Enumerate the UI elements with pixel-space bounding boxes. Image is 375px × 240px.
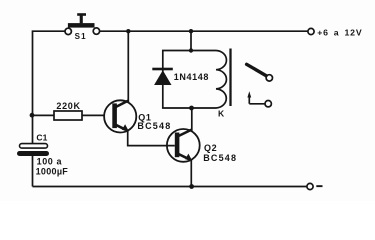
relay contacts: armature — [247, 64, 273, 81]
wire: Q1 collector vertical — [127, 31, 129, 102]
terminal +V — [308, 28, 314, 34]
node: junction left rail / resistor — [30, 113, 35, 118]
node: junction top rail / Q1 collector — [126, 29, 130, 33]
svg-text:1N4148: 1N4148 — [174, 72, 209, 82]
relay contacts: fixed contact with arrow — [247, 91, 271, 107]
transistor Q2 BC548 — [167, 129, 200, 162]
capacitor C1 — [17, 144, 49, 187]
svg-text:+6 a 12V: +6 a 12V — [317, 27, 362, 37]
pushbutton S1 — [65, 13, 100, 34]
node: junction bottom rail / Q2 emitter — [189, 184, 194, 189]
transistor Q1 BC548 — [104, 100, 136, 132]
svg-text:C1: C1 — [36, 133, 47, 143]
svg-text:1000µF: 1000µF — [36, 167, 69, 177]
svg-text:220K: 220K — [56, 101, 80, 111]
diode D1 1N4148 — [152, 68, 173, 85]
labels text group — [36, 27, 363, 176]
wire: box bottom to Q2 collector — [191, 108, 193, 131]
svg-text:S1: S1 — [75, 32, 87, 41]
svg-text:K: K — [218, 109, 225, 119]
svg-text:100 a: 100 a — [37, 156, 63, 166]
wire: top rail right segment — [100, 30, 308, 32]
wire: Q2 emitter to bottom rail — [190, 160, 192, 187]
wire: top rail left segment — [33, 31, 65, 144]
svg-text:BC548: BC548 — [203, 153, 237, 163]
svg-text:BC548: BC548 — [137, 121, 171, 131]
relay K box with coil — [163, 49, 231, 109]
node: junction box bottom — [189, 106, 194, 111]
wire: Q1 emitter to Q2 base — [128, 131, 175, 146]
node: junction top rail / relay branch — [189, 29, 193, 33]
svg-text:Q2: Q2 — [204, 143, 217, 153]
wire: bottom rail — [33, 186, 307, 188]
resistor R 220K — [33, 111, 105, 120]
terminal - — [307, 183, 323, 189]
node: junction box top — [189, 48, 193, 52]
wire: relay branch vertical — [190, 31, 192, 50]
